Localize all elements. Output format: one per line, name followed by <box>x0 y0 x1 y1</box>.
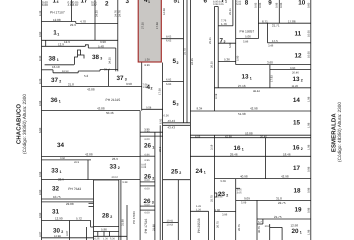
wire 31 bottom <box>42 220 91 222</box>
svg-text:0.98: 0.98 <box>307 207 310 213</box>
svg-text:PH 10857: PH 10857 <box>240 29 255 33</box>
wire 18 left micro <box>236 187 240 189</box>
svg-text:42.98: 42.98 <box>250 106 258 110</box>
svg-text:48.44: 48.44 <box>253 90 260 93</box>
svg-text:8.63: 8.63 <box>166 36 172 39</box>
svg-text:21.71: 21.71 <box>272 24 280 28</box>
wire 9|10 boundary <box>278 0 280 23</box>
svg-text:10.41: 10.41 <box>167 220 174 223</box>
svg-text:31: 31 <box>52 208 60 215</box>
svg-text:19: 19 <box>295 207 303 214</box>
svg-text:24: 24 <box>196 168 204 175</box>
wire 12 bottom <box>236 64 311 66</box>
svg-text:38: 38 <box>92 54 100 61</box>
svg-text:2: 2 <box>301 79 303 83</box>
svg-text:6.96: 6.96 <box>145 159 151 162</box>
svg-text:17.58: 17.58 <box>159 88 162 95</box>
svg-text:38: 38 <box>49 55 57 62</box>
svg-text:1: 1 <box>225 0 227 4</box>
svg-text:10.63: 10.63 <box>167 224 174 227</box>
svg-text:8.60: 8.60 <box>39 31 42 37</box>
svg-text:8.20: 8.20 <box>39 78 42 84</box>
wire 19 left <box>256 200 258 240</box>
wire 17/2 bottom <box>76 22 118 24</box>
svg-text:0.58: 0.58 <box>146 106 152 109</box>
svg-text:18.46: 18.46 <box>283 152 291 156</box>
svg-text:8: 8 <box>245 0 249 7</box>
wire 26_2 bottom b <box>140 185 155 187</box>
svg-text:0.60: 0.60 <box>308 2 311 8</box>
svg-text:16.53: 16.53 <box>62 70 69 73</box>
svg-text:34.4: 34.4 <box>104 68 110 72</box>
svg-text:12.98: 12.98 <box>291 223 299 227</box>
svg-text:5.36: 5.36 <box>224 58 230 62</box>
wire 26_3 bottom b <box>140 209 155 211</box>
svg-text:0.00: 0.00 <box>145 203 151 206</box>
svg-text:17.86: 17.86 <box>288 19 296 23</box>
wire 25_3 divider <box>163 222 179 224</box>
svg-text:1: 1 <box>148 0 150 4</box>
wire 1_1 left notch <box>45 40 47 46</box>
wire 37_2 top <box>53 72 78 74</box>
svg-text:50.46: 50.46 <box>106 111 114 115</box>
svg-text:2: 2 <box>61 230 63 234</box>
svg-text:12.98: 12.98 <box>54 235 61 238</box>
wire corridor jog box <box>85 45 88 48</box>
svg-text:1: 1 <box>57 32 59 36</box>
svg-text:2: 2 <box>177 61 179 65</box>
wire 23_2 left jog <box>214 193 216 197</box>
svg-text:31.88: 31.88 <box>152 224 155 231</box>
svg-text:20: 20 <box>292 228 300 235</box>
svg-text:17.93: 17.93 <box>271 75 274 82</box>
wire lot6 left <box>189 0 191 240</box>
svg-text:11.26: 11.26 <box>292 85 299 88</box>
wire 24 notch vert <box>208 211 210 240</box>
svg-text:36: 36 <box>51 97 59 104</box>
svg-text:9.58: 9.58 <box>126 82 132 86</box>
svg-text:22.75: 22.75 <box>278 201 286 205</box>
spine top tick <box>214 6 218 8</box>
wire 13 bottom <box>214 87 310 89</box>
svg-text:12.90: 12.90 <box>55 217 63 221</box>
svg-text:25.21: 25.21 <box>229 8 232 15</box>
svg-text:PH 17516: PH 17516 <box>144 219 148 234</box>
wire 26_3 bottom a <box>140 205 155 207</box>
wire 17|2 boundary <box>94 0 96 40</box>
svg-text:18: 18 <box>294 188 302 195</box>
svg-text:31.75: 31.75 <box>183 48 186 55</box>
svg-text:40.98: 40.98 <box>240 175 248 179</box>
wire 28 left notch b <box>89 205 94 207</box>
svg-text:9.30: 9.30 <box>39 55 42 61</box>
PH 29538 rotated <box>197 218 201 233</box>
svg-text:(Código: 39350) Altura: 2300: (Código: 39350) Altura: 2300 <box>22 94 27 154</box>
svg-text:1.96: 1.96 <box>215 209 221 212</box>
svg-text:20.67: 20.67 <box>112 176 119 179</box>
svg-text:10.75: 10.75 <box>53 195 61 199</box>
street CHACABUCO label <box>16 104 23 144</box>
svg-text:3: 3 <box>177 103 179 107</box>
wire 33 bottom <box>42 179 141 181</box>
svg-text:37: 37 <box>51 77 59 84</box>
svg-text:1: 1 <box>300 231 302 235</box>
svg-text:12.9: 12.9 <box>58 43 64 47</box>
wire 28 top <box>94 179 119 181</box>
wire 24 notch <box>190 210 208 212</box>
svg-text:1: 1 <box>178 0 180 4</box>
wire 34/33 corridor top <box>42 156 141 158</box>
svg-text:5.72: 5.72 <box>76 217 82 221</box>
svg-text:6.00: 6.00 <box>145 188 151 191</box>
svg-text:1.58: 1.58 <box>143 86 148 89</box>
svg-text:21.75: 21.75 <box>274 215 282 219</box>
svg-text:43.43: 43.43 <box>168 119 176 123</box>
svg-text:1: 1 <box>59 99 61 103</box>
svg-text:5.2: 5.2 <box>84 74 89 78</box>
wire corridor top left <box>42 45 86 47</box>
svg-text:5.00: 5.00 <box>237 55 240 61</box>
svg-text:8.66: 8.66 <box>39 171 42 177</box>
wire 1_4 bottom <box>42 21 76 23</box>
svg-text:2: 2 <box>179 171 181 175</box>
svg-text:1: 1 <box>152 145 154 149</box>
wire 25_3 right vertical <box>177 180 179 240</box>
svg-text:11: 11 <box>295 30 302 37</box>
wire 38 stair tick <box>78 54 81 56</box>
svg-text:42.98: 42.98 <box>225 136 232 139</box>
svg-text:31.88: 31.88 <box>122 219 125 226</box>
svg-text:9.09: 9.09 <box>244 196 250 200</box>
svg-text:25.21: 25.21 <box>209 37 212 44</box>
svg-text:16.10: 16.10 <box>52 65 60 69</box>
svg-text:14: 14 <box>293 97 301 104</box>
svg-text:1.98: 1.98 <box>307 122 310 128</box>
svg-text:24.35: 24.35 <box>191 58 194 65</box>
block left edge wire <box>41 0 43 240</box>
svg-text:24.25: 24.25 <box>95 10 98 17</box>
svg-text:PH 7643: PH 7643 <box>68 187 81 191</box>
wire 26col right vertical <box>154 132 156 240</box>
spine left wire upper <box>213 7 215 112</box>
svg-text:5.09: 5.09 <box>241 202 247 205</box>
svg-text:5.96: 5.96 <box>101 228 107 232</box>
svg-text:5.48: 5.48 <box>98 44 104 48</box>
svg-text:27.35: 27.35 <box>142 22 145 29</box>
svg-text:29.46: 29.46 <box>230 152 238 156</box>
wire 36/PH bottom <box>42 110 141 112</box>
wire 30_2|30_3 <box>69 221 71 240</box>
wire jog 1_4/17 <box>75 22 77 24</box>
svg-text:15: 15 <box>293 120 301 127</box>
svg-text:10: 10 <box>298 0 306 6</box>
street CHACABUCO code label <box>22 94 27 154</box>
wire 26_1 bottom <box>140 155 155 157</box>
svg-text:5.00: 5.00 <box>236 3 241 6</box>
wire 34/33 corridor bottom <box>42 159 92 161</box>
svg-text:0.05: 0.05 <box>259 2 262 8</box>
street ESMERALDA label <box>330 113 337 152</box>
svg-text:33: 33 <box>51 167 59 174</box>
svg-text:2: 2 <box>118 166 120 170</box>
svg-text:42.88: 42.88 <box>85 152 93 156</box>
svg-text:13: 13 <box>293 76 301 83</box>
svg-text:2: 2 <box>301 147 303 151</box>
wire 38_3 bottom right <box>100 69 118 71</box>
svg-text:0.98: 0.98 <box>307 187 310 193</box>
svg-text:6.63: 6.63 <box>166 40 172 43</box>
svg-text:0.05: 0.05 <box>141 166 146 169</box>
wire 7|8 boundary <box>235 0 237 65</box>
wire 5_2|5_3 divide <box>163 81 184 83</box>
svg-text:12.08: 12.08 <box>163 8 166 15</box>
wire 38 inner right <box>115 48 117 71</box>
svg-text:3.05: 3.05 <box>237 191 242 194</box>
wire 20 inner left <box>269 224 271 240</box>
svg-text:5.86: 5.86 <box>243 40 249 43</box>
svg-text:3.96: 3.96 <box>218 196 223 199</box>
svg-text:26.9: 26.9 <box>112 157 118 161</box>
wire 28 micro v1 <box>97 232 99 237</box>
svg-text:43.88: 43.88 <box>87 87 95 91</box>
svg-text:6.00: 6.00 <box>42 3 48 7</box>
svg-text:0.06: 0.06 <box>219 3 224 6</box>
wire 20 step b <box>262 219 264 224</box>
svg-text:34: 34 <box>57 142 65 149</box>
svg-text:2: 2 <box>224 40 226 44</box>
wire 38 stair cluster <box>75 50 85 65</box>
wire 16_1|16_2 divider <box>265 138 267 179</box>
wire 7_1 bottom <box>218 25 233 27</box>
svg-text:4.70: 4.70 <box>80 20 86 24</box>
wire 5_2 left below gray <box>162 63 164 240</box>
svg-text:6.00: 6.00 <box>145 138 151 141</box>
wire 1_1 bottom <box>42 39 118 41</box>
svg-text:9: 9 <box>268 0 272 6</box>
wire 26 top a <box>140 131 163 133</box>
wire 13_2 top <box>270 69 311 71</box>
svg-text:13: 13 <box>242 74 250 81</box>
wire corridor 25 top b <box>163 124 191 126</box>
svg-text:22.9: 22.9 <box>70 23 76 27</box>
svg-text:51.98: 51.98 <box>238 112 246 116</box>
wire 23 right <box>235 179 237 240</box>
svg-text:24.76: 24.76 <box>114 10 117 17</box>
wire 32 corridor a <box>42 198 94 200</box>
wire 37_2 jog <box>52 70 54 73</box>
svg-text:0.05: 0.05 <box>255 2 258 8</box>
wire 23_2 bottom <box>214 211 235 213</box>
svg-text:8.60: 8.60 <box>39 189 42 195</box>
svg-text:9.34: 9.34 <box>197 106 203 110</box>
svg-text:3: 3 <box>125 77 127 81</box>
rotated dims <box>39 0 310 237</box>
svg-text:2: 2 <box>152 176 154 180</box>
svg-text:4.33: 4.33 <box>39 10 42 16</box>
svg-text:5.06: 5.06 <box>245 35 251 39</box>
svg-text:17: 17 <box>81 0 89 5</box>
dimension labels horizontal <box>52 18 299 240</box>
svg-text:22.88: 22.88 <box>66 202 74 206</box>
svg-text:24.76: 24.76 <box>118 10 121 17</box>
svg-text:1.26: 1.26 <box>196 208 202 211</box>
svg-text:13.2: 13.2 <box>265 225 271 228</box>
svg-text:22.9: 22.9 <box>58 177 64 181</box>
wire 28 left <box>93 180 95 240</box>
wire 29 inner <box>126 205 128 240</box>
svg-text:1: 1 <box>204 171 206 175</box>
svg-text:26.9: 26.9 <box>159 146 162 152</box>
svg-text:43.43: 43.43 <box>168 126 176 130</box>
svg-text:30: 30 <box>53 228 61 235</box>
svg-text:17: 17 <box>293 165 301 172</box>
wire 7_2 divider2 <box>218 61 236 63</box>
wire 31 jog <box>90 221 92 228</box>
svg-text:2: 2 <box>105 0 109 7</box>
wire 26col left vertical <box>139 111 141 240</box>
svg-text:26.75: 26.75 <box>238 224 241 231</box>
svg-text:6.71: 6.71 <box>262 19 268 23</box>
svg-text:6.96: 6.96 <box>145 153 151 156</box>
wire 5 right a <box>183 0 185 123</box>
svg-text:3.07: 3.07 <box>39 231 42 237</box>
wire 26 top b <box>140 135 163 137</box>
wire lot3 left edge <box>117 0 119 71</box>
svg-text:PH 21315: PH 21315 <box>106 98 121 102</box>
svg-text:PH 17936: PH 17936 <box>132 211 136 224</box>
svg-text:5.7: 5.7 <box>258 221 262 224</box>
svg-text:0.00: 0.00 <box>145 179 151 182</box>
svg-text:3.60: 3.60 <box>267 61 273 65</box>
wire 4_2 left vertical <box>141 63 143 111</box>
svg-text:42.98: 42.98 <box>281 175 289 179</box>
svg-text:0.06: 0.06 <box>275 2 278 8</box>
svg-text:0.60: 0.60 <box>60 157 66 160</box>
svg-text:1.98: 1.98 <box>307 96 310 102</box>
spine right wire <box>217 7 219 88</box>
wire 20 inner top <box>270 226 282 228</box>
svg-text:10.05: 10.05 <box>307 51 310 58</box>
svg-text:3.19: 3.19 <box>211 144 214 150</box>
wire 20 step a <box>257 223 263 225</box>
wire 37_2 top left <box>42 69 54 71</box>
street ESMERALDA code label <box>337 102 342 162</box>
svg-text:3.19: 3.19 <box>215 93 218 99</box>
svg-text:8.60: 8.60 <box>39 212 42 218</box>
svg-text:0.98: 0.98 <box>307 166 310 172</box>
svg-text:3: 3 <box>100 56 102 60</box>
svg-text:1.98: 1.98 <box>307 144 310 150</box>
svg-text:9.38: 9.38 <box>123 181 128 184</box>
wire 7_1 right <box>232 0 234 26</box>
corridor 28 wire b <box>120 180 122 240</box>
wire 30 inner <box>86 227 88 240</box>
svg-text:3.96: 3.96 <box>222 213 228 216</box>
svg-text:25: 25 <box>171 169 179 176</box>
svg-text:4.67: 4.67 <box>73 3 79 7</box>
svg-text:6.93: 6.93 <box>166 83 172 86</box>
svg-text:34.35: 34.35 <box>109 57 112 64</box>
block right edge wire <box>310 0 312 240</box>
wire 15 bottom double a <box>190 134 310 136</box>
wire 15 bottom double b <box>190 137 310 139</box>
wire 11 bottom <box>268 42 311 44</box>
svg-text:26.35: 26.35 <box>211 61 214 68</box>
svg-text:17.5: 17.5 <box>272 39 278 43</box>
svg-text:0.36: 0.36 <box>164 115 170 118</box>
wire 7_2 divider1 <box>218 42 236 44</box>
svg-text:0.60: 0.60 <box>290 67 296 70</box>
svg-text:20.46: 20.46 <box>292 72 299 75</box>
svg-text:1: 1 <box>242 147 244 151</box>
svg-text:12: 12 <box>295 52 303 59</box>
svg-text:26: 26 <box>144 143 152 150</box>
svg-text:6.92: 6.92 <box>160 118 163 124</box>
svg-text:7.76: 7.76 <box>221 20 227 23</box>
svg-text:1.98: 1.98 <box>307 229 310 235</box>
wire 31 jog h <box>91 226 94 228</box>
wire 19 bottom <box>257 218 311 220</box>
wire corridor 25 top a <box>163 122 191 124</box>
svg-text:4.67: 4.67 <box>91 3 97 7</box>
svg-text:37: 37 <box>117 75 125 82</box>
wire 26_2 bottom a <box>140 181 155 183</box>
wire 1_4|17 boundary <box>71 0 73 22</box>
svg-text:28: 28 <box>102 212 110 219</box>
svg-text:3.07: 3.07 <box>66 230 69 236</box>
svg-text:21.8: 21.8 <box>68 82 74 86</box>
wire 25_2 bottom <box>163 179 191 181</box>
svg-text:3: 3 <box>126 0 130 5</box>
svg-text:26.9: 26.9 <box>74 161 80 164</box>
svg-text:12.9: 12.9 <box>64 40 70 44</box>
svg-text:20.46: 20.46 <box>260 136 267 139</box>
svg-text:5.00: 5.00 <box>229 42 232 48</box>
wire 32 corridor b <box>42 201 94 203</box>
wire 11 left <box>267 23 269 43</box>
svg-text:1.50: 1.50 <box>145 58 151 61</box>
wire 9/10 bottom <box>258 22 310 24</box>
wire 36/37 boundary <box>42 85 142 87</box>
svg-text:3: 3 <box>152 201 154 205</box>
wire 28 left notch a <box>89 202 94 204</box>
wire 26 corridor vertical <box>159 125 161 240</box>
svg-text:1: 1 <box>60 170 62 174</box>
svg-text:36.75: 36.75 <box>258 226 261 233</box>
svg-text:5.09: 5.09 <box>221 180 227 183</box>
PH 17516 rotated <box>144 219 148 234</box>
svg-text:27.16: 27.16 <box>238 84 246 88</box>
wire 5_1|5_2 tick <box>161 38 183 40</box>
svg-text:PH 29538: PH 29538 <box>197 218 201 233</box>
svg-text:2: 2 <box>226 194 228 198</box>
svg-text:2: 2 <box>59 80 61 84</box>
svg-text:6: 6 <box>204 0 208 5</box>
svg-text:25.75: 25.75 <box>211 195 214 202</box>
wire 13_2 left <box>269 65 271 88</box>
wire 33_1|33_2 <box>87 160 89 180</box>
svg-text:1: 1 <box>250 76 252 80</box>
wire 17 bottom long <box>215 178 311 180</box>
wire 30 bottom <box>42 237 94 239</box>
svg-text:26.75: 26.75 <box>217 221 220 228</box>
wire 18 bottom <box>236 199 311 201</box>
wire 14 bottom <box>190 110 310 112</box>
svg-text:6.60: 6.60 <box>39 127 42 133</box>
spine left wire lower <box>213 135 215 240</box>
svg-text:16: 16 <box>234 145 242 152</box>
wire 28 micro v2 <box>103 232 105 237</box>
